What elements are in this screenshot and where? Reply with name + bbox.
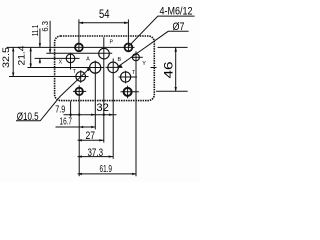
- svg-text:11.1: 11.1: [31, 24, 40, 36]
- TA crosshair v: [80, 70, 82, 83]
- B col line (crosshair + ext to 37.3): [112, 59, 114, 159]
- port X: [66, 54, 75, 63]
- port TA: [76, 72, 86, 82]
- arrow 46 bottom: [174, 87, 177, 91]
- arrow 16.7 left: [79, 126, 83, 128]
- arrow 11.1 up stub: [39, 59, 41, 63]
- centerline BL bolt crosshair h: [73, 90, 86, 92]
- bolt col left long line (BL crosshair + ext to 61.9): [78, 85, 80, 176]
- svg-text:Ø10.5: Ø10.5: [17, 111, 39, 123]
- ext vertical bolt col left (54 dim + TL crosshair): [78, 19, 80, 51]
- arrow 11.1 down: [39, 43, 41, 47]
- svg-text:37.3: 37.3: [88, 147, 104, 159]
- leader 4-M6/12: [128, 16, 194, 47]
- arrow 27 right: [99, 139, 103, 141]
- chain dot bolt col: [78, 114, 80, 116]
- port P: [99, 48, 110, 59]
- port Y: [132, 54, 139, 61]
- chain dim line (7.9 / 32): [64, 114, 117, 116]
- centerline A row (left ext through A): [28, 67, 104, 69]
- svg-text:16.7: 16.7: [60, 116, 73, 128]
- arrow 32.5 bottom: [12, 73, 14, 77]
- arrow 27 left: [78, 139, 82, 141]
- arrowhead leader Ø7: [118, 65, 123, 68]
- Y col line (crosshair + ext to 61.9): [135, 51, 137, 176]
- dim 6.3 line: [49, 21, 51, 54]
- bolt hole bottom-right: [124, 88, 132, 96]
- dim 11.1 lower stub: [39, 59, 41, 64]
- X col ext below plate: [70, 101, 72, 117]
- dim 32.5 line: [12, 47, 14, 76]
- arrow 54 left: [79, 22, 83, 25]
- arrow 54 right: [124, 22, 128, 25]
- arrow 6.3 down: [49, 49, 51, 53]
- centerline BR bolt crosshair h: [121, 91, 139, 93]
- svg-text:4-M6/12: 4-M6/12: [160, 5, 193, 17]
- svg-text:21.4: 21.4: [17, 46, 28, 66]
- bolt hole top-right: [124, 44, 132, 52]
- svg-text:32: 32: [96, 102, 109, 114]
- svg-text:Ø7: Ø7: [173, 21, 185, 33]
- svg-text:P: P: [110, 40, 114, 46]
- dim 27 line: [78, 139, 104, 141]
- arrow 21.4 bottom: [30, 64, 32, 68]
- dim 16.7 line: [56, 126, 96, 128]
- svg-text:X: X: [59, 60, 63, 66]
- B row tick at right plate edge: [151, 67, 157, 69]
- svg-text:54: 54: [99, 7, 110, 21]
- chain dot P col: [103, 114, 105, 116]
- centerline P row (left ext through P): [46, 52, 112, 54]
- A col line (crosshair + ext to 16.7): [94, 61, 96, 130]
- svg-text:46: 46: [163, 62, 175, 79]
- svg-text:61.9: 61.9: [100, 163, 113, 175]
- svg-text:Y: Y: [142, 61, 146, 67]
- dim 46 line: [175, 47, 177, 91]
- TB crosshair v: [125, 71, 127, 84]
- centerline bolt row top (left ext through TL bolt to P edge): [7, 46, 135, 48]
- BR bolt crosshair v: [127, 86, 129, 99]
- arrow 32.5 top: [12, 47, 14, 51]
- arrow 46 top: [174, 47, 177, 51]
- arrow 61.9 right: [132, 173, 136, 175]
- leader Ø10.5: [16, 68, 90, 121]
- ext h right top (46): [158, 46, 188, 48]
- svg-text:A: A: [86, 57, 90, 63]
- dim 21.4 line: [30, 47, 32, 67]
- Y crosshair h: [131, 56, 143, 58]
- svg-text:27: 27: [86, 130, 96, 142]
- svg-text:32.5: 32.5: [1, 47, 12, 68]
- arrowhead leader Ø10.5: [87, 68, 91, 72]
- svg-text:6.3: 6.3: [41, 21, 50, 32]
- ext h right bottom (46): [156, 90, 188, 92]
- port A: [90, 62, 101, 73]
- plate outline dashed: [55, 36, 155, 101]
- port TB: [121, 72, 131, 82]
- svg-text:7.9: 7.9: [55, 103, 65, 115]
- dim 11.1 line: [39, 29, 41, 48]
- bolt hole bottom-left: [76, 88, 83, 95]
- arrow 21.4 top: [30, 47, 32, 51]
- svg-text:B: B: [118, 57, 122, 63]
- chain arrow A col: [91, 114, 95, 116]
- arrowheads: [12, 22, 177, 176]
- bolt hole top-left: [75, 44, 83, 52]
- arrow 37.3 right: [109, 155, 113, 157]
- centerline X row (through X): [35, 57, 80, 59]
- port B: [108, 62, 119, 73]
- dim 54 line: [79, 22, 128, 24]
- chain arrow B col: [109, 114, 113, 116]
- arrow 16.7 right: [91, 126, 95, 128]
- P col line (crosshair + ext to 27): [103, 37, 105, 142]
- arrow 61.9 left: [78, 173, 82, 175]
- leader Ø7: [118, 31, 189, 67]
- X crosshair v: [70, 53, 72, 70]
- centerline B crosshair h: [106, 66, 123, 68]
- dimension texts: [1, 5, 192, 175]
- chain dot X col: [69, 114, 71, 116]
- dim 61.9 line: [78, 173, 137, 175]
- centerline TB crosshair h: [119, 76, 138, 78]
- arrow 37.3 left: [78, 155, 82, 157]
- dim 37.3 line: [78, 156, 113, 158]
- ext vertical bolt col right: [127, 19, 129, 51]
- centerline T row (through TA): [9, 76, 89, 78]
